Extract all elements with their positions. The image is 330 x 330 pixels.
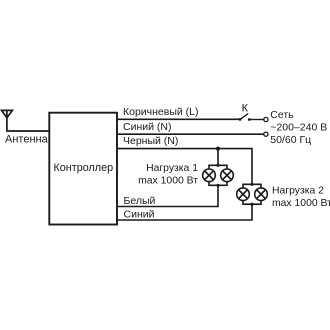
svg-text:50/60 Гц: 50/60 Гц [270, 134, 311, 146]
svg-text:max 1000 Вт: max 1000 Вт [138, 175, 198, 186]
wire N black horizontal [117, 148, 252, 150]
svg-text:Синий (N): Синий (N) [123, 121, 171, 133]
svg-text:К: К [242, 103, 249, 115]
svg-text:Антенна: Антенна [5, 134, 49, 146]
lamp pair load 1 [203, 164, 234, 187]
terminal circle N [264, 132, 268, 136]
switch K [239, 103, 251, 121]
svg-text:Контроллер: Контроллер [54, 162, 114, 174]
svg-text:Нагрузка 1: Нагрузка 1 [146, 163, 198, 174]
svg-text:Нагрузка 2: Нагрузка 2 [272, 185, 324, 196]
junction dot node A [216, 147, 220, 151]
terminal circle L [264, 117, 268, 121]
svg-text:Коричневый (L): Коричневый (L) [123, 106, 199, 118]
controller box U1 [49, 113, 117, 225]
antenna [2, 110, 13, 131]
wire drop to load 1 [217, 149, 219, 166]
svg-text:max 1000 Вт: max 1000 Вт [272, 198, 330, 209]
wire blue [117, 204, 252, 220]
wire white [117, 185, 218, 206]
svg-text:Сеть: Сеть [270, 109, 294, 121]
wire L brown [117, 118, 240, 120]
wire switch to terminal [249, 119, 263, 121]
svg-text:Белый: Белый [124, 195, 156, 207]
svg-text:Синий: Синий [124, 208, 155, 220]
lamp pair load 2 [237, 183, 268, 206]
svg-text:Черный (N): Черный (N) [123, 135, 178, 147]
wire drop to load 2 [251, 148, 253, 185]
wire N blue [117, 133, 264, 135]
svg-text:~200–240 В: ~200–240 В [270, 122, 327, 134]
wire antenna lead [6, 130, 49, 132]
